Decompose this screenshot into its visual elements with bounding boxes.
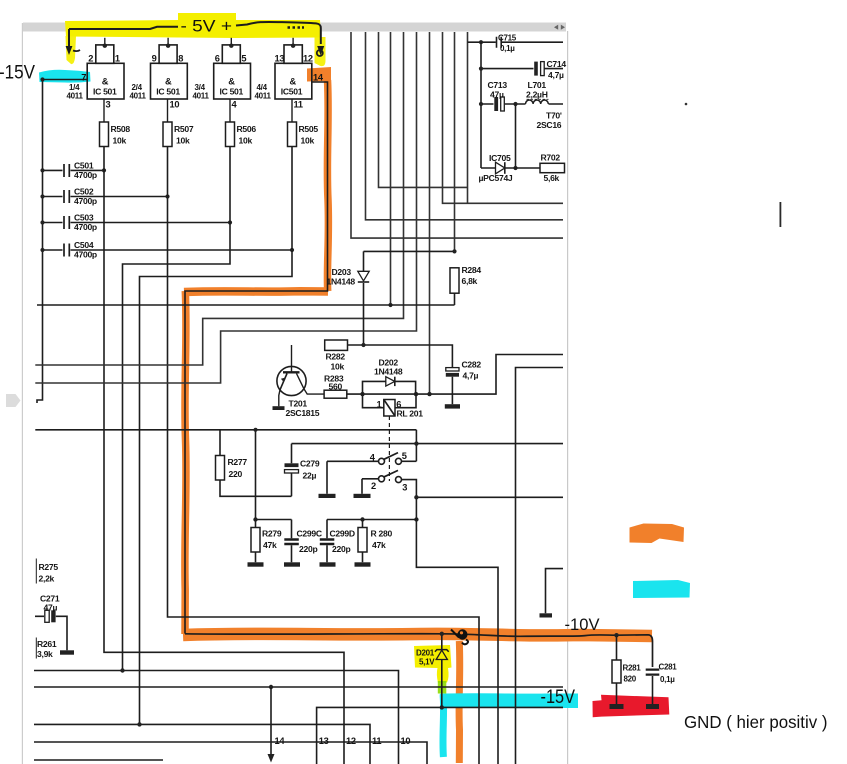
svg-text:820: 820 [624, 675, 637, 684]
wire bus vertical I (x454.5) to R284 [454, 32, 456, 251]
svg-text:C282: C282 [462, 360, 482, 370]
wire bus vertical C (x378.5) to fanout y187 [379, 32, 468, 187]
ground C299C [284, 562, 300, 566]
svg-text:R275: R275 [39, 562, 59, 572]
svg-text:4,7µ: 4,7µ [463, 371, 479, 381]
ground C281 [646, 704, 659, 709]
wire horizontal y443.6 [292, 443, 564, 445]
wire right block vertical x481 [480, 42, 482, 168]
svg-text:2: 2 [88, 53, 93, 63]
op-amp gate IC501d (4/4 4011) [275, 38, 312, 122]
wire L701 node down to IC705 node [515, 104, 517, 168]
svg-text:5,6k: 5,6k [544, 173, 560, 183]
ground C271 [60, 650, 74, 654]
wire R506 bottom [229, 147, 231, 223]
ground C282 [445, 404, 460, 408]
wire bottom bus y707.4 to pin13 [317, 707, 563, 764]
wire net gate1 output down to pin12 [104, 170, 344, 764]
svg-text:4700p: 4700p [74, 196, 97, 206]
resistor R506 [226, 122, 235, 147]
svg-text:4011: 4011 [255, 92, 272, 101]
wire bus vertical B (x365.5) to fanout y220 [366, 32, 564, 220]
svg-text:5: 5 [241, 53, 246, 63]
svg-text:2,2µH: 2,2µH [526, 89, 548, 99]
svg-text:4700p: 4700p [74, 222, 97, 232]
capacitor C299D [320, 520, 335, 563]
svg-text:C281: C281 [659, 663, 678, 672]
svg-text:IC 501: IC 501 [156, 87, 180, 97]
svg-text:4700p: 4700p [74, 170, 97, 180]
wire D203 to R284 top [364, 250, 455, 252]
resistor R282 [325, 340, 348, 350]
capacitor C713 [479, 97, 516, 111]
capacitor C501 [40, 164, 106, 177]
svg-text:4011: 4011 [130, 92, 147, 101]
svg-text:220p: 220p [332, 544, 350, 554]
resistor R279 [251, 520, 260, 563]
svg-text:12: 12 [303, 53, 313, 63]
highlight cyan vertical below -15V [439, 695, 447, 757]
svg-text:5: 5 [402, 451, 407, 461]
svg-text:R284: R284 [462, 265, 482, 275]
wire y519.5 left piece R279-C299C [256, 430, 292, 520]
capacitor C279 [285, 444, 299, 497]
svg-text:R505: R505 [299, 124, 319, 134]
svg-text:R702: R702 [541, 153, 561, 163]
wire horizontal y429.8 switch feed [35, 429, 416, 431]
svg-text:10k: 10k [176, 136, 190, 146]
svg-text:µPC574J: µPC574J [479, 173, 513, 183]
svg-text:C714: C714 [547, 59, 567, 69]
svg-text:R277: R277 [228, 457, 248, 467]
svg-text:R282: R282 [326, 352, 346, 362]
wire R505 bottom [291, 147, 293, 251]
svg-text:0,1µ: 0,1µ [500, 44, 515, 53]
wire bottom bus y687 with pin14 arrow [34, 686, 563, 688]
svg-text:10k: 10k [239, 136, 253, 146]
svg-text:9: 9 [152, 53, 157, 63]
svg-text:220p: 220p [299, 544, 317, 554]
svg-text:11: 11 [372, 736, 381, 746]
wire y519.5 right piece C299D-R280 [327, 519, 416, 521]
wire R284 bottom elbow [454, 293, 456, 305]
resistor R277 [216, 430, 292, 497]
highlight orange bottom -10V band [183, 634, 652, 636]
svg-text:2: 2 [371, 481, 376, 491]
svg-text:3: 3 [402, 483, 407, 493]
svg-text:4/4: 4/4 [257, 83, 268, 92]
svg-text:T70': T70' [546, 110, 562, 120]
legend red GND band [593, 695, 670, 718]
HILITES [39, 13, 690, 763]
wire bus vertical J (x467.5) to fanout y203 [467, 32, 469, 203]
capacitor C503 [40, 216, 232, 229]
svg-text:C279: C279 [300, 459, 320, 469]
svg-text:3,9k: 3,9k [37, 649, 53, 659]
svg-text:14: 14 [275, 736, 286, 746]
wire bus vertical F (x416.5) west path [35, 32, 416, 383]
svg-text:R 280: R 280 [371, 529, 393, 539]
svg-text:47k: 47k [263, 540, 277, 550]
resistor R281 [612, 635, 621, 704]
resistor R280 [358, 520, 367, 563]
svg-text:13: 13 [275, 53, 285, 63]
wire switch node down to y519 [415, 497, 417, 519]
capacitor C281 [646, 670, 660, 704]
svg-text:2SC1815: 2SC1815 [286, 408, 320, 418]
resistor R505 [288, 122, 297, 147]
svg-text:-15V: -15V [541, 687, 576, 708]
svg-text:11: 11 [294, 99, 303, 109]
svg-text:2/4: 2/4 [132, 83, 143, 92]
capacitor C715 [468, 37, 564, 48]
op-amp gate IC501a (1/4 4011) [87, 38, 124, 122]
resistor R508 [100, 122, 109, 147]
svg-text:10: 10 [401, 736, 411, 746]
wire switch net to x498 drop [416, 520, 498, 764]
wire R282 right to C282 [348, 345, 453, 368]
legend orange swatch [630, 524, 685, 544]
svg-text:1N4148: 1N4148 [327, 276, 356, 286]
svg-text:R508: R508 [111, 124, 131, 134]
pen dots .... annotation [288, 26, 305, 28]
ground switch2 pole [354, 479, 371, 498]
ground R281 [610, 704, 624, 709]
resistor R261 stub [35, 638, 37, 659]
pen annotation -5V line with arrows [66, 22, 325, 56]
svg-text:1: 1 [377, 400, 382, 410]
svg-text:IC 501: IC 501 [93, 87, 117, 97]
svg-text:10k: 10k [331, 362, 345, 372]
svg-text:RL 201: RL 201 [397, 408, 424, 418]
wire pin 14 to orange drop [185, 82, 328, 634]
op-amp gate IC501c (3/4 4011) [214, 38, 251, 122]
wire R507 bottom [167, 147, 169, 197]
svg-text:R281: R281 [623, 664, 642, 673]
svg-text:C299C: C299C [297, 529, 322, 539]
svg-text:R506: R506 [237, 124, 257, 134]
capacitor C299C [284, 520, 299, 563]
svg-text:IC501: IC501 [281, 87, 303, 97]
svg-text:6: 6 [215, 53, 220, 63]
wire x515 elbow down [516, 368, 564, 764]
resistor R284 [450, 268, 459, 293]
wire net gate3 output reroute [123, 223, 231, 671]
highlight orange horizontal mid [184, 287, 328, 296]
svg-text:4011: 4011 [193, 92, 210, 101]
wire relay node y394.1 [347, 355, 563, 395]
highlight orange long vertical left [185, 291, 186, 634]
wire net gate4 output reroute [140, 250, 293, 724]
svg-text:IC705: IC705 [489, 153, 511, 163]
svg-text:3: 3 [106, 99, 111, 109]
highlight orange pin14 blob [307, 67, 331, 82]
svg-text:R261: R261 [37, 639, 57, 649]
capacitor C271 [35, 610, 67, 650]
wire net gate2 output down to x479 drop [168, 197, 480, 764]
svg-text:10: 10 [170, 99, 180, 109]
wire -10V run inside orange band [185, 634, 653, 667]
svg-text:560: 560 [329, 382, 343, 392]
node pin7 junction [40, 77, 44, 81]
highlight yellow -5V band [65, 13, 321, 38]
wire pin 7 feed [43, 79, 88, 81]
capacitor C714 [479, 62, 563, 76]
resistor R702 [540, 163, 565, 172]
wire bus vertical H (x442.5) to join y219.8 [443, 32, 564, 203]
wire bottom bus y670.5 [34, 671, 399, 764]
resistor R283 [324, 390, 347, 398]
svg-text:R507: R507 [174, 124, 194, 134]
highlight cyan pin7 [39, 70, 91, 83]
svg-text:220: 220 [229, 469, 243, 479]
svg-text:7: 7 [81, 73, 86, 83]
svg-text:R279: R279 [262, 529, 282, 539]
svg-text:IC 501: IC 501 [220, 87, 244, 97]
svg-text:22µ: 22µ [303, 471, 317, 481]
highlight cyan -15V band [440, 693, 578, 708]
wire bus vertical A (x351) to fanout y238 [351, 32, 563, 238]
highlight green streak below D201 [438, 681, 447, 694]
diode D202 [363, 377, 416, 394]
resistor R275 stub [35, 559, 37, 584]
wire bus vertical E (x403.5) west path [35, 32, 403, 365]
svg-text:5,1V: 5,1V [419, 658, 435, 667]
svg-text:D201: D201 [416, 649, 435, 658]
svg-text:-10V: -10V [565, 615, 601, 634]
svg-text:-15V: -15V [0, 62, 35, 84]
svg-text:47k: 47k [372, 540, 386, 550]
wire bottom bus y724.4 to pin11 [34, 724, 370, 764]
svg-text:6,8k: 6,8k [462, 276, 478, 286]
ground switch4 pole [319, 461, 336, 498]
resistor R507 [163, 122, 172, 147]
svg-text:3/4: 3/4 [195, 83, 206, 92]
svg-text:4: 4 [232, 99, 238, 109]
switch contact 2-3 [362, 470, 416, 497]
pen scribble knot on -10V wire [451, 629, 468, 644]
ground R279 [248, 562, 264, 566]
transistor T201 [277, 345, 324, 406]
wire bottom bus y760 [34, 759, 163, 761]
svg-text:4,7µ: 4,7µ [548, 70, 564, 80]
highlight orange vertical below D201 band [456, 641, 464, 763]
svg-text:C715: C715 [498, 34, 517, 43]
wire bus vertical G (x429.5) to relay node [429, 32, 431, 394]
svg-text:2,2k: 2,2k [39, 574, 55, 584]
diode D201 zener [435, 634, 449, 707]
highlight yellow right arrow streak [315, 37, 326, 66]
svg-text:1N4148: 1N4148 [374, 367, 403, 377]
op-amp gate IC501b (2/4 4011) [151, 38, 188, 122]
svg-text:- 5V +: - 5V + [181, 17, 233, 36]
svg-text:&: & [102, 76, 109, 86]
svg-text:0,1µ: 0,1µ [660, 675, 675, 684]
capacitor C504 [40, 244, 294, 257]
ground T201 emitter [273, 406, 285, 410]
svg-text:2SC16: 2SC16 [537, 120, 562, 130]
wire bus vertical D (x390.5) to node on y305 [390, 32, 392, 305]
svg-text:12: 12 [346, 736, 356, 746]
wire stub terminal right [546, 569, 564, 614]
svg-text:C299D: C299D [330, 529, 355, 539]
svg-text:14: 14 [313, 73, 324, 83]
svg-text:47µ: 47µ [490, 89, 504, 99]
svg-text:&: & [228, 76, 235, 86]
highlight orange vertical right of IC501 [327, 80, 328, 291]
legend cyan swatch [633, 580, 690, 598]
svg-text:T201: T201 [289, 398, 308, 408]
svg-text:10k: 10k [301, 136, 315, 146]
wire horizontal y305 [37, 304, 455, 306]
diode D203 [358, 251, 369, 345]
ground C299D [320, 562, 336, 566]
svg-text:&: & [165, 76, 172, 86]
capacitor C282 [446, 368, 459, 405]
svg-text:8: 8 [178, 53, 183, 63]
wire bottom bus y742 [34, 742, 427, 764]
highlight yellow D201 [414, 645, 452, 683]
svg-text:&: & [290, 76, 297, 86]
svg-text:1/4: 1/4 [69, 83, 80, 92]
wire horizontal y497.3 [416, 496, 563, 498]
ground stub terminal [540, 613, 553, 617]
wire left -15V rail vertical [37, 80, 43, 404]
svg-text:47µ: 47µ [44, 602, 58, 612]
svg-text:4011: 4011 [67, 92, 84, 101]
ground R280 [355, 562, 371, 566]
capacitor C502 [40, 190, 169, 203]
svg-text:1: 1 [115, 53, 120, 63]
svg-text:4700p: 4700p [74, 250, 97, 260]
relay RL201 [363, 394, 417, 481]
switch contact 4-5 [327, 430, 416, 465]
svg-text:13: 13 [319, 736, 329, 746]
svg-text:GND ( hier positiv ): GND ( hier positiv ) [684, 712, 828, 732]
wire R508 bottom [103, 147, 105, 171]
highlight yellow left arrow streak [66, 36, 77, 64]
svg-text:10k: 10k [113, 136, 127, 146]
inductor L701 [513, 100, 563, 106]
diode IC705 [481, 162, 540, 174]
